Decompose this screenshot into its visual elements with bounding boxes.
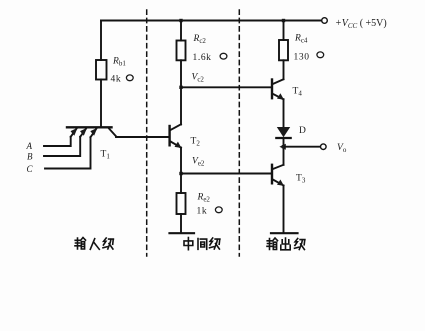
transistor T3 emitter slant [273, 180, 284, 186]
value 1k ohm circle [215, 207, 222, 213]
output arrowhead pointing at node [279, 144, 285, 150]
ground middle stage [170, 232, 195, 234]
wire emitter1 down to input A [44, 137, 71, 146]
node junction Ve2 branch to T3 base [179, 172, 182, 175]
label stage 中 (of 中间级) [184, 238, 193, 250]
transistor T4 emitter arrowhead [277, 93, 284, 99]
label stage 级 (of 中间级) [210, 238, 220, 249]
svg-text:1.6k: 1.6k [193, 53, 212, 63]
svg-text:130: 130 [294, 53, 310, 63]
dashed boundary line input/middle [146, 10, 148, 256]
Vo terminal circle [321, 144, 327, 150]
label stage 入 (of 输入级) [90, 239, 99, 250]
wire Rc2 branch: rail to resistor [180, 21, 182, 41]
transistor T4 emitter slant [273, 94, 284, 100]
wire Re2 to ground [180, 214, 182, 233]
svg-text:C: C [27, 164, 34, 174]
label stage 输 (of 输入级) [75, 238, 86, 250]
Vcc terminal circle [322, 18, 328, 24]
transistor T2 base bar [168, 126, 170, 145]
svg-text:1k: 1k [197, 207, 208, 217]
node junction Vc2 branch to T4 base [179, 86, 182, 89]
transistor T1 emitter 1 arrowhead [71, 128, 78, 136]
wire Rc2 to T2 collector [180, 60, 182, 124]
label stage 出 (of 输出级) [281, 238, 290, 250]
transistor T1 emitter 2 arrowhead [80, 128, 87, 136]
transistor T2 emitter arrowhead [175, 142, 182, 148]
label stage 输 (of 输出级) [267, 238, 278, 250]
transistor T1 collector slant [109, 128, 117, 137]
svg-text:+VCC ( +5V): +VCC ( +5V) [335, 18, 387, 30]
wire diode to output node [283, 138, 285, 165]
wire T4 emitter to diode [283, 99, 285, 127]
transistor T1 emitter 3 slant [91, 128, 97, 137]
svg-text:A: A [26, 141, 33, 151]
transistor T4 collector slant [273, 79, 284, 84]
svg-text:D: D [299, 126, 306, 136]
diode D cathode bar [276, 137, 290, 139]
wire rail down to Rb1 [100, 21, 102, 61]
wire Ve2 node down to Re2 [180, 174, 182, 194]
transistor T2 emitter slant [171, 142, 182, 148]
transistor T2 collector slant [171, 124, 182, 130]
node junction rail / Rc4 branch [282, 19, 285, 22]
transistor T1 base bar [67, 126, 112, 128]
value 4k ohm circle [126, 75, 133, 81]
wire Rc4 branch: rail to resistor [283, 21, 285, 41]
wire Rb1 to T1 base [100, 80, 102, 127]
node junction rail / Rc2 branch [179, 19, 182, 22]
ground output stage [271, 232, 298, 234]
wire T2 emitter down to Ve2 node [180, 148, 182, 174]
resistor Rc2 body [177, 41, 186, 61]
resistor Rb1 body [96, 60, 107, 80]
label stage 级 (of 输入级) [103, 238, 113, 249]
label stage 间 (of 中间级) [198, 239, 207, 250]
transistor T3 base bar [271, 165, 273, 184]
wire emitter2 down to input B [44, 137, 80, 156]
wire emitter3 down to input C [45, 137, 91, 168]
svg-text:4k: 4k [111, 75, 122, 85]
transistor T4 base bar [271, 80, 273, 99]
transistor T3 collector slant [273, 165, 284, 169]
node junction output [282, 145, 285, 148]
diode D body [277, 127, 290, 137]
resistor Rc4 body [279, 40, 288, 60]
wire Vc2 node to T4 base [181, 86, 271, 88]
wire T3 emitter to ground [283, 186, 285, 233]
value 1.6k ohm circle [220, 53, 227, 59]
wire T1 collector to T2 base [116, 136, 169, 138]
dashed boundary line middle/output [238, 10, 240, 256]
label stage 级 (of 输出级) [295, 239, 305, 250]
transistor T1 emitter 3 arrowhead [90, 128, 97, 136]
transistor T3 emitter arrowhead [277, 180, 284, 186]
value 130 ohm circle [317, 52, 324, 58]
resistor Re2 body [177, 193, 186, 214]
wire Ve2 node to T3 base [181, 173, 271, 175]
wire top rail Vcc [101, 20, 321, 22]
wire Rc4 to T4 collector [283, 60, 285, 79]
svg-text:B: B [27, 152, 33, 162]
transistor T1 emitter 2 slant [80, 128, 86, 137]
transistor T1 emitter 1 slant [71, 128, 77, 137]
wire output node to Vo terminal [285, 146, 320, 148]
